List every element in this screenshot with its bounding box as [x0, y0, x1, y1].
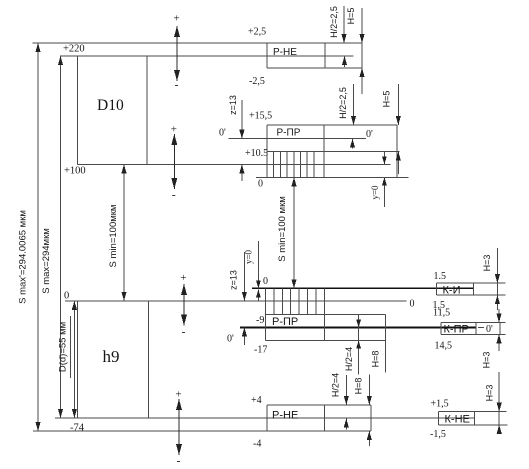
- svg-text:+4: +4: [251, 395, 262, 406]
- svg-text:D(d)=55 мм: D(d)=55 мм: [58, 322, 69, 372]
- svg-text:+: +: [175, 389, 181, 401]
- svg-text:0': 0': [219, 128, 226, 139]
- dimension H=8 (P-NE shaft): [367, 374, 372, 446]
- line -9 (P-PR shaft top): [266, 314, 386, 316]
- P-PR shaft box left edge: [265, 288, 267, 340]
- line Smax'-bottom (-4 level P-NE shaft): [33, 430, 371, 432]
- h9 box left edge: [77, 301, 79, 418]
- wire P-NE(hole) box bottom -2,5 level: [267, 67, 363, 69]
- D10 box left edge: [77, 56, 79, 164]
- svg-text:+: +: [180, 272, 186, 284]
- svg-text:S min=100мкм: S min=100мкм: [108, 205, 119, 268]
- K-PR box right edge: [499, 323, 501, 335]
- P-NE shaft box divider: [324, 405, 326, 431]
- line +10,5 (P-PR hole): [267, 151, 400, 153]
- K-NE box left edge: [438, 412, 440, 425]
- plus-minus arrow at D10 bottom: [171, 124, 178, 202]
- svg-text:z=13: z=13: [228, 95, 238, 115]
- svg-text:Н=3: Н=3: [485, 385, 495, 402]
- svg-text:S max'=294.0065 мкм: S max'=294.0065 мкм: [18, 210, 29, 304]
- dimension H/2=4 (P-NE shaft): [344, 375, 349, 429]
- svg-text:S min=100 мкм: S min=100 мкм: [277, 196, 288, 262]
- svg-text:0': 0': [486, 324, 493, 335]
- svg-text:Н=3: Н=3: [482, 255, 492, 272]
- dimension H/2=2,5 (P-PR hole): [350, 84, 356, 149]
- line 0 lower thick (gauge zero, to K-I): [252, 287, 474, 289]
- P-PR shaft box right edge: [385, 315, 387, 373]
- svg-text:+1,5: +1,5: [431, 399, 449, 410]
- svg-text:14,5: 14,5: [435, 341, 453, 352]
- line +220 (D10 upper deviation): [60, 55, 354, 57]
- dimension H=3 (K-PR): [496, 309, 501, 351]
- svg-text:-9: -9: [256, 315, 264, 326]
- svg-text:+100: +100: [64, 166, 86, 177]
- dimension S max': [35, 43, 40, 431]
- dimension H/2=4 (P-PR shaft): [356, 315, 361, 375]
- K-I box top: [437, 282, 506, 284]
- svg-text:-2,5: -2,5: [249, 76, 265, 87]
- svg-text:0: 0: [258, 179, 263, 190]
- plus-minus arrow at h9 bottom: [175, 389, 182, 468]
- K-I box divider: [473, 283, 475, 295]
- P-NE hole box right edge: [361, 43, 363, 68]
- svg-text:-17: -17: [254, 345, 267, 356]
- dimension у=0 lower: [256, 241, 261, 301]
- svg-text:+: +: [171, 124, 177, 136]
- svg-text:Н=8: Н=8: [354, 378, 364, 395]
- K-PR box top: [441, 322, 506, 324]
- dimension S min right: [291, 177, 296, 288]
- dimension H=3 (K-NE): [497, 372, 502, 434]
- svg-text:D10: D10: [97, 97, 124, 114]
- svg-text:S max=294мкм: S max=294мкм: [41, 228, 52, 294]
- dimension H/2=2,5 (P-NE hole): [341, 6, 347, 67]
- svg-text:Н/2=2,5: Н/2=2,5: [329, 6, 339, 38]
- line -17 (P-PR shaft bottom): [266, 340, 386, 342]
- svg-text:+220: +220: [63, 44, 85, 55]
- svg-text:Р-НЕ: Р-НЕ: [272, 410, 298, 422]
- line 0 upper (P-PR hole bottom): [256, 176, 409, 178]
- K-I box left edge: [436, 283, 438, 295]
- P-NE shaft box left edge: [266, 405, 268, 431]
- svg-text:z=13: z=13: [229, 270, 239, 290]
- svg-text:-4: -4: [253, 439, 261, 450]
- K-I box right edge: [496, 283, 498, 295]
- svg-text:0': 0': [366, 129, 373, 140]
- D10 box divider: [146, 56, 148, 164]
- svg-text:11,5: 11,5: [433, 308, 450, 319]
- K-NE box divider: [474, 412, 476, 425]
- dimension H=3 (K-I): [495, 248, 500, 310]
- svg-text:Н/2=4: Н/2=4: [344, 347, 354, 371]
- line +100 (D10 lower deviation): [78, 163, 391, 165]
- svg-text:К-И: К-И: [443, 285, 461, 297]
- line Smax'-top (+2,5 level of P-NE hole): [33, 42, 363, 44]
- line -74 h9 lower deviation (K-NE centre): [55, 417, 475, 419]
- plus-minus arrow at h9 top: [180, 272, 187, 339]
- dimension у=0 upper: [382, 152, 387, 208]
- P-NE hole box left edge: [266, 43, 268, 68]
- svg-text:К-НЕ: К-НЕ: [445, 414, 470, 426]
- svg-text:+2,5: +2,5: [248, 27, 266, 38]
- K-NE box right edge: [498, 412, 500, 425]
- hatching of P-PR shaft wear zone: [274, 288, 324, 314]
- svg-text:Р-ПР: Р-ПР: [277, 128, 301, 139]
- svg-text:Р-НЕ: Р-НЕ: [273, 47, 297, 58]
- K-PR box bottom: [441, 333, 506, 335]
- svg-text:+10.5: +10.5: [245, 148, 268, 159]
- line P-PR(hole) box top +15,5: [267, 124, 398, 126]
- line 0' lower thick (to K-PR): [240, 327, 476, 329]
- svg-text:1.5: 1.5: [434, 271, 447, 282]
- K-NE box top: [439, 411, 507, 413]
- P-PR hole box divider: [323, 125, 325, 177]
- K-PR box divider: [475, 323, 477, 335]
- line 0' upper (gauge centre): [229, 138, 367, 140]
- line 0 h9 upper deviation: [65, 300, 407, 302]
- svg-text:-: -: [172, 188, 176, 202]
- svg-text:0: 0: [64, 291, 69, 302]
- P-PR hole box right edge: [396, 125, 398, 177]
- svg-text:у=0: у=0: [370, 185, 380, 200]
- svg-text:h9: h9: [103, 347, 120, 366]
- svg-text:0: 0: [263, 276, 268, 287]
- dimension H=5 (P-PR hole): [396, 84, 401, 174]
- svg-text:у=0: у=0: [244, 249, 254, 264]
- svg-text:-74: -74: [70, 423, 85, 434]
- svg-text:К-ПР: К-ПР: [444, 324, 469, 336]
- P-NE shaft box right edge: [370, 405, 372, 431]
- dimension S max: [58, 56, 63, 418]
- hatching of P-PR hole wear zone: [267, 152, 314, 178]
- dimension z=13 upper: [239, 100, 244, 181]
- dash before 0' in K-PR: [478, 327, 484, 329]
- underline of D(d) label: [70, 316, 72, 378]
- K-NE box bottom: [439, 424, 508, 426]
- plus-minus arrow at D10 top: [173, 13, 180, 92]
- svg-text:+15,5: +15,5: [249, 111, 272, 122]
- svg-text:-: -: [177, 454, 181, 468]
- svg-text:-: -: [175, 78, 179, 92]
- P-PR hole box left edge: [266, 125, 268, 177]
- svg-text:-1,5: -1,5: [430, 429, 446, 440]
- K-PR box left edge: [440, 323, 442, 335]
- P-NE hole box divider: [324, 43, 326, 68]
- svg-text:+: +: [173, 13, 179, 25]
- svg-text:Н=5: Н=5: [382, 91, 392, 108]
- svg-text:0': 0': [227, 334, 234, 345]
- svg-text:Н/2=4: Н/2=4: [331, 373, 341, 397]
- P-PR shaft box divider: [324, 288, 326, 340]
- svg-text:-: -: [182, 325, 186, 339]
- h9 box divider: [148, 301, 150, 418]
- dimension z=13 lower: [242, 252, 247, 345]
- dimension H=5 (P-NE hole): [359, 8, 364, 94]
- dimension D(d): [72, 301, 77, 418]
- svg-text:Н/2=2,5: Н/2=2,5: [338, 87, 348, 119]
- line P-NE(shaft) box top +4: [267, 404, 371, 406]
- svg-text:Н=3: Н=3: [482, 352, 492, 369]
- svg-text:Р-ПР: Р-ПР: [272, 316, 298, 328]
- svg-text:Н=8: Н=8: [371, 351, 381, 368]
- K-I box bottom: [437, 294, 506, 296]
- svg-text:0: 0: [410, 299, 415, 310]
- svg-text:Н=5: Н=5: [346, 8, 356, 25]
- dimension S min left: [121, 164, 126, 300]
